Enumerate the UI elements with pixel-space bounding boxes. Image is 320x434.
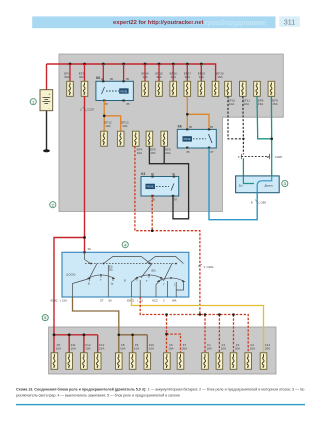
svg-text:85: 85	[210, 125, 213, 129]
svg-text:E: E	[267, 155, 269, 159]
junction orange K6	[186, 113, 189, 116]
svg-text:30A: 30A	[156, 75, 161, 79]
svg-text:10A: 10A	[206, 347, 211, 351]
junction dashed F6	[165, 333, 168, 336]
fuse F11 10A	[66, 353, 73, 370]
wire black battery negative	[46, 111, 48, 150]
junction on bus x=70	[69, 63, 72, 66]
ignition switch sector ST	[157, 278, 185, 282]
fuse EF12 10A	[101, 131, 108, 146]
svg-text:10A: 10A	[171, 75, 176, 79]
svg-text:87: 87	[105, 102, 108, 106]
svg-text:C86: C86	[261, 201, 267, 205]
svg-text:311: 311	[284, 18, 295, 27]
svg-text:40A: 40A	[79, 75, 84, 79]
wire red stub to fuse at x=84.5	[84, 64, 86, 81]
svg-text:63M2: 63M2	[51, 299, 58, 303]
junctions dashed bus	[204, 313, 207, 316]
wire brown bottom bus	[119, 335, 148, 353]
header bar	[32, 16, 275, 28]
svg-text:15A: 15A	[272, 102, 277, 106]
svg-text:10A: 10A	[199, 75, 204, 79]
junction dashed black	[242, 138, 244, 140]
fuse EF8 15A	[254, 81, 261, 96]
junction on bus x=84.5	[83, 63, 86, 66]
wire blue K6 pin87 to unit 3 connector C86	[209, 148, 257, 220]
bottom relay-fuse box unit 5 (cabin) grey body	[49, 327, 276, 374]
junction red split	[83, 236, 86, 239]
fuse F2 10A	[216, 353, 223, 370]
battery GB box	[40, 90, 53, 111]
fuse F8 10A	[116, 353, 123, 370]
svg-text:C205: C205	[275, 155, 283, 159]
wire red-dashed drop F6 F7	[167, 315, 181, 353]
fuse F12 10A	[81, 353, 88, 370]
wire red-dashed ignition ACC bus	[140, 297, 248, 353]
svg-text:K6: K6	[178, 125, 182, 129]
wire red stub to fuse at x=187.3	[186, 64, 188, 81]
svg-text:85: 85	[126, 77, 129, 81]
fuse F6 10A	[164, 353, 171, 370]
fuse EF18 10A	[198, 81, 205, 96]
svg-text:Схема 13. Соединения блока рел: Схема 13. Соединения блока реле и предох…	[16, 388, 305, 392]
svg-text:10A: 10A	[221, 347, 226, 351]
wire red stub to fuse at x=70	[69, 64, 71, 81]
wire red-dashed EF4 down and right to connector C201	[135, 146, 200, 314]
fuse EF2 40A	[81, 81, 88, 96]
fuse F1 10A	[202, 353, 209, 370]
wire black-dashed EF10 EF11 to connector C205	[228, 96, 243, 139]
wire black EF5 EF6 loop to K3 pin 87	[149, 146, 188, 219]
wire red bottom bus	[54, 335, 98, 353]
svg-text:15A: 15A	[62, 299, 67, 303]
relay K6 body	[177, 125, 216, 154]
wire red-dashed K3 pin85 down	[151, 196, 153, 231]
svg-text:15A: 15A	[258, 102, 263, 106]
svg-text:15A: 15A	[99, 347, 104, 351]
svg-text:50A: 50A	[64, 75, 69, 79]
wire red stub to fuse at x=145	[144, 64, 146, 81]
svg-text:10A: 10A	[71, 347, 76, 351]
svg-text:10A: 10A	[244, 102, 249, 106]
svg-text:C201: C201	[207, 265, 215, 269]
svg-text:86: 86	[189, 125, 192, 129]
fuse EF9 15A	[268, 81, 275, 96]
svg-text:85: 85	[127, 102, 130, 106]
relay K3 body	[141, 172, 179, 202]
fuse F13 15A	[94, 353, 101, 370]
svg-text:ST: ST	[100, 299, 104, 303]
fuse F14 20A	[260, 353, 267, 370]
svg-text:30A: 30A	[185, 75, 190, 79]
svg-text:РЕЛЕ: РЕЛЕ	[120, 89, 127, 93]
relay K3 coil	[146, 184, 155, 189]
svg-text:10A: 10A	[142, 75, 147, 79]
wire red stub to fuse at x=159	[158, 64, 160, 81]
svg-text:C207: C207	[87, 108, 95, 112]
svg-text:+: +	[49, 93, 51, 97]
svg-text:Бл.: Бл.	[239, 184, 243, 188]
svg-text:10A: 10A	[250, 347, 255, 351]
svg-text:30: 30	[101, 77, 104, 81]
svg-text:10A: 10A	[120, 347, 125, 351]
ignition internal drops	[73, 279, 90, 298]
fuse EF13 10A	[117, 131, 124, 146]
relay K8 coil	[120, 89, 129, 94]
fuse EF5 15A	[146, 131, 153, 146]
svg-text:15A: 15A	[217, 75, 222, 79]
svg-text:63M1: 63M1	[127, 299, 134, 303]
wire yellow ignition 63M1 to fuse F14	[132, 297, 264, 353]
fuse F3 20A	[230, 353, 237, 370]
fuse EF19 15A	[212, 81, 219, 96]
relay-fuse box unit 2 (engine bay) grey body	[59, 54, 283, 212]
svg-text:10A: 10A	[56, 347, 61, 351]
relay K6 switch contact	[209, 134, 213, 143]
svg-text:WA: WA	[172, 299, 177, 303]
wire red-dashed drops F1 F2 F3	[205, 315, 234, 353]
svg-text:87: 87	[174, 198, 177, 202]
svg-text:85: 85	[187, 150, 190, 154]
node label 5	[42, 315, 48, 321]
svg-text:F: F	[238, 155, 240, 159]
fuse F4 10A	[245, 353, 252, 370]
junction on bus x=103.3	[102, 63, 105, 66]
wire red stub to fuse at x=201.3	[200, 64, 202, 81]
wire red EF2 down to ignition / bottom box	[54, 96, 85, 334]
fuse F7 20A	[177, 353, 184, 370]
junction brown	[118, 334, 121, 337]
fuse EF17 30A	[184, 81, 191, 96]
fuse EF16 10A	[170, 81, 177, 96]
ground terminal blob	[43, 149, 50, 152]
wire red stub to relay K8 pin 30	[102, 64, 104, 81]
wire red supply bus	[47, 64, 216, 81]
junction on bus x=201.3	[200, 63, 203, 66]
svg-text:10A: 10A	[168, 347, 173, 351]
junction on bus x=145	[144, 63, 147, 66]
fuse EF11 10A	[240, 81, 247, 96]
svg-text:10A: 10A	[137, 151, 142, 155]
wire teal C205 to unit 3	[242, 158, 244, 176]
svg-text:20A: 20A	[182, 347, 187, 351]
ignition switch sector LOCK	[87, 275, 115, 279]
footer rule	[16, 404, 305, 405]
fuse F10 10A	[144, 353, 151, 370]
ignition pivot dashed line	[85, 263, 177, 265]
svg-text:20A: 20A	[165, 151, 170, 155]
junction on bus x=173.2	[172, 63, 175, 66]
wire orange EF17 to relay K6 pins	[186, 96, 188, 129]
wire red battery to bus	[46, 64, 48, 90]
svg-text:Дальн.: Дальн.	[265, 184, 274, 188]
node label 1 (battery)	[30, 99, 36, 105]
svg-text:expert22 for http://youtracker: expert22 for http://youtracker.net	[113, 20, 204, 26]
svg-text:ACC: ACC	[152, 299, 158, 303]
page number box	[279, 16, 300, 26]
wire orange K8 pin87 to fuses EF12 EF13	[103, 101, 105, 132]
wire red stub to ignition pin 30	[84, 238, 86, 253]
node label 2	[50, 202, 56, 208]
wire red stub to fuse at x=173.2	[172, 64, 174, 81]
connector C205 dashed link	[241, 156, 269, 158]
junction dashed	[151, 229, 154, 232]
ignition link bar 1	[104, 256, 151, 263]
fuse EF14 10A	[142, 81, 149, 96]
svg-text:10A: 10A	[229, 102, 234, 106]
fuse F5 10A	[51, 353, 58, 370]
junction orange split	[103, 115, 106, 118]
svg-text:86: 86	[110, 77, 113, 81]
relay K8 switch contact	[102, 87, 105, 94]
svg-text:10A: 10A	[134, 347, 139, 351]
junction on bus x=187.3	[186, 63, 189, 66]
relay K3 switch contact	[171, 184, 174, 191]
battery plates symbol	[43, 98, 51, 104]
wire red stub to relay K8 pin 86	[123, 64, 125, 81]
svg-text:10A: 10A	[105, 124, 110, 128]
svg-text:РЕЛЕ: РЕЛЕ	[147, 185, 154, 189]
svg-text:87: 87	[211, 150, 214, 154]
junction on bus x=123.6	[122, 63, 125, 66]
fuse EF1 50A	[67, 81, 74, 96]
fuse EF4 10A	[133, 131, 140, 146]
fuse F9 10A	[129, 353, 136, 370]
fuse EF15 30A	[156, 81, 163, 96]
svg-text:K3: K3	[141, 172, 145, 176]
unit 3 box	[236, 176, 280, 193]
ignition pin30 lead	[85, 252, 91, 263]
svg-text:50: 50	[109, 299, 113, 303]
svg-text:(58): (58)	[108, 268, 113, 271]
wire brown ignition 63M2 to bottom bus	[73, 297, 119, 335]
junction teal	[270, 138, 273, 141]
svg-text:30: 30	[88, 247, 92, 251]
fuse EF10 10A	[225, 81, 232, 96]
junction red bus	[53, 333, 56, 336]
node label 3	[282, 180, 288, 186]
wire teal EF8 EF9 down	[257, 96, 272, 139]
ignition switch sector ACC	[135, 275, 163, 279]
node label 4	[122, 242, 128, 248]
svg-text:10A: 10A	[122, 124, 127, 128]
svg-text:реключатель света фар; 4 — вык: реключатель света фар; 4 — выключатель з…	[16, 394, 180, 398]
svg-text:20A: 20A	[265, 347, 270, 351]
svg-text:15A: 15A	[150, 151, 155, 155]
relay K6 coil	[183, 137, 192, 142]
fuse EF6 20A	[161, 131, 168, 146]
junction on bus x=159	[158, 63, 161, 66]
svg-text:10A: 10A	[149, 347, 154, 351]
svg-text:10A: 10A	[85, 347, 90, 351]
svg-text:(LOCK): (LOCK)	[66, 273, 76, 277]
svg-text:K8: K8	[96, 76, 100, 80]
ignition switch body	[62, 247, 189, 297]
svg-text:РЕЛЕ: РЕЛЕ	[184, 137, 191, 141]
svg-text:20A: 20A	[235, 347, 240, 351]
ignition link bar 2	[146, 256, 184, 263]
svg-text:(50): (50)	[151, 270, 156, 273]
relay K8 body	[96, 76, 133, 106]
